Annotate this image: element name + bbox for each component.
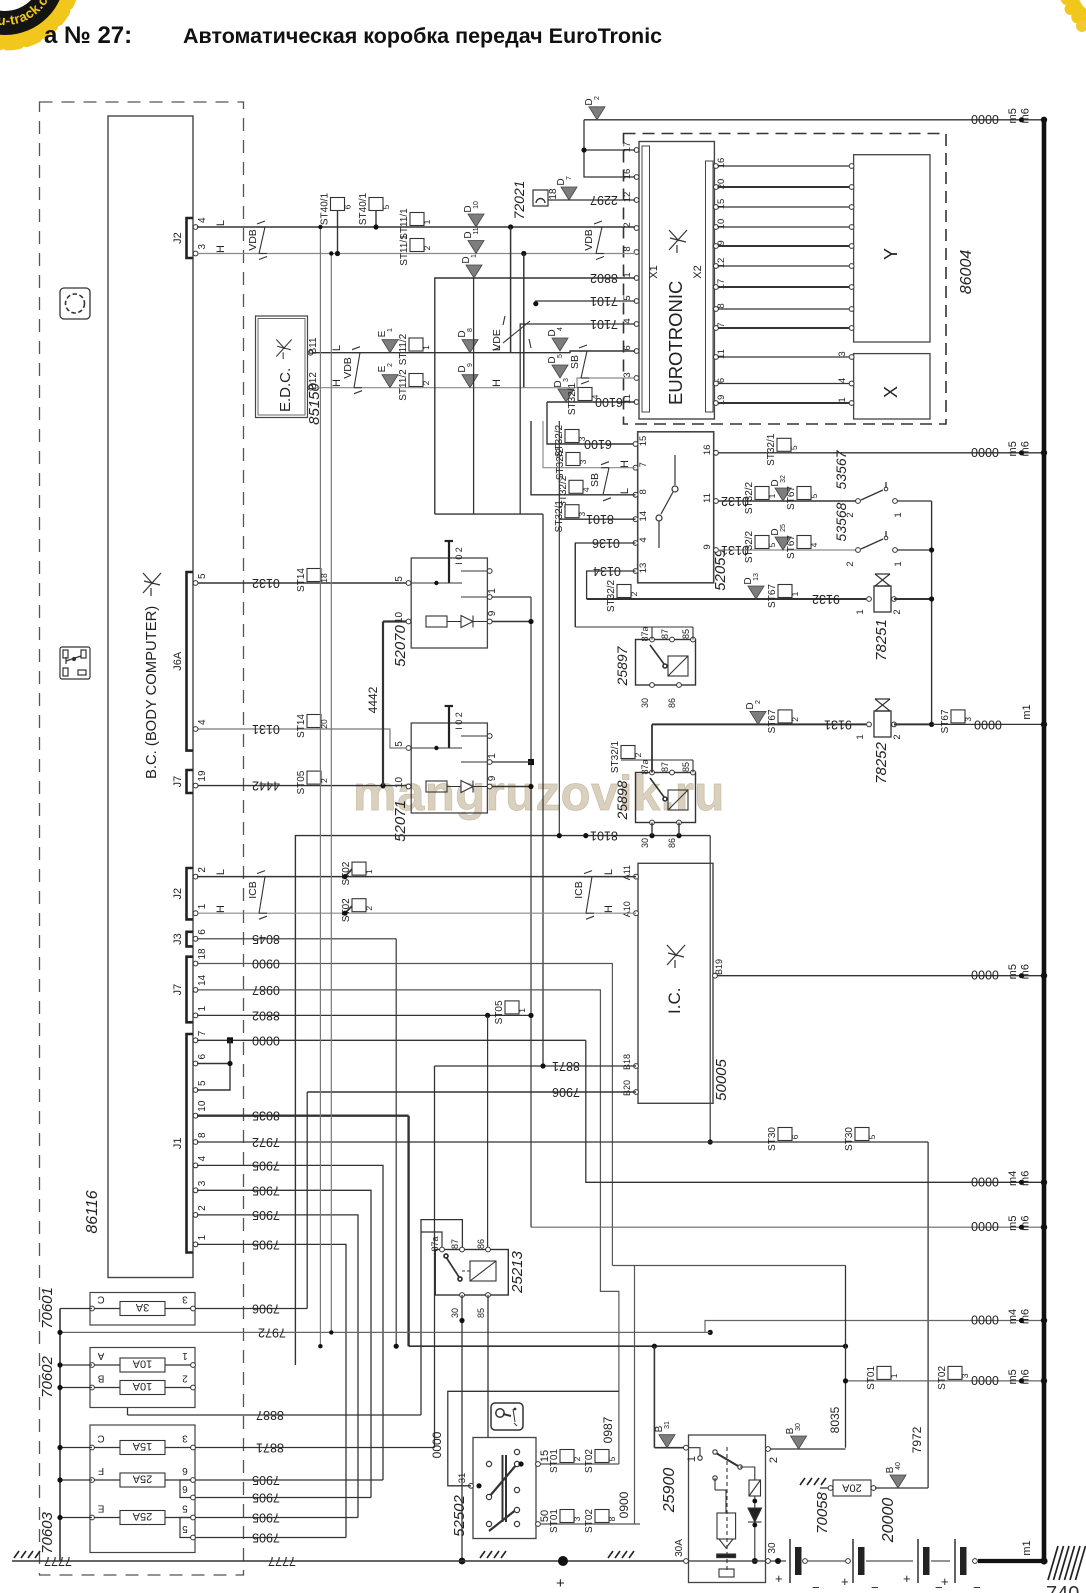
wire 9132 row <box>587 598 866 600</box>
wire 25898 pin30 stub <box>651 823 653 836</box>
svg-text:17: 17 <box>622 142 633 153</box>
diode/clip D7 <box>561 187 577 200</box>
wire 25213 pin85 down <box>487 1295 489 1438</box>
wire L row 52059 <box>531 421 636 495</box>
svg-text:78251: 78251 <box>873 619 890 661</box>
svg-text:ST01: ST01 <box>549 1509 560 1533</box>
52071 resistor <box>426 781 447 792</box>
svg-text:L: L <box>603 869 615 875</box>
svg-text:H: H <box>491 379 503 387</box>
svg-text:70601: 70601 <box>39 1287 56 1329</box>
wire 70602 inB <box>60 1387 92 1389</box>
svg-text:H: H <box>603 905 615 913</box>
wire X2-8 to Y <box>718 308 850 310</box>
junction bus tap 52059 bus dot <box>1041 450 1047 456</box>
junction bus tap top bus dot <box>1041 117 1047 123</box>
wire 7972 jog <box>705 1321 1042 1333</box>
svg-text:m4: m4 <box>1007 1171 1019 1186</box>
wire 52071 pin1 out <box>492 761 531 763</box>
connector J3 bracket <box>187 932 194 947</box>
twisted pair SB 52059 <box>601 462 611 501</box>
wire H row 52059 <box>543 421 636 468</box>
svg-text:5: 5 <box>622 295 633 300</box>
pin 52070 pin 10 <box>406 619 411 624</box>
svg-text:13: 13 <box>753 573 760 581</box>
svg-text:L: L <box>215 869 227 875</box>
pin 52070 pin 5 <box>406 581 411 586</box>
svg-text:8035: 8035 <box>828 1406 842 1433</box>
pin IC pin B19 <box>713 973 718 978</box>
svg-text:m5: m5 <box>1007 1216 1019 1231</box>
junction bus tap 52059 dot <box>1019 450 1024 455</box>
wire 8035 to pin2 <box>770 1448 846 1450</box>
pin 25900 pin 30A <box>684 1559 689 1564</box>
junction 8101 joint a <box>557 833 562 838</box>
pin 52502 pin 15 <box>536 1462 541 1467</box>
svg-text:+: + <box>903 1571 911 1586</box>
svg-text:3: 3 <box>197 1180 208 1186</box>
svg-text:ST32/2: ST32/2 <box>555 447 566 480</box>
pin 52059 pin 7 <box>633 465 638 470</box>
wire 8101 row upper <box>559 518 635 520</box>
logo gear ecu-track.com <box>0 0 74 44</box>
wire fuse 25A-1 link l <box>94 1479 120 1481</box>
pin fuse 25A-1 pin 6 <box>191 1478 196 1483</box>
wire 9131 left link <box>651 724 653 772</box>
box 52502 <box>473 1438 536 1539</box>
wire 25898 pin86 stub <box>678 823 680 836</box>
svg-text:9: 9 <box>487 610 498 616</box>
svg-text:0000: 0000 <box>971 445 999 459</box>
wire 30 to battery <box>770 1560 786 1562</box>
ground bus m6 <box>1042 120 1047 1561</box>
wire 52070 pin9 out <box>492 621 531 623</box>
svg-text:15A: 15A <box>132 1440 152 1452</box>
svg-text:−: − <box>973 1580 981 1593</box>
pin 25900 pin 1 <box>684 1445 689 1450</box>
svg-text:2: 2 <box>633 752 643 757</box>
wire pot riser to bus <box>531 1226 1042 1228</box>
svg-text:20A: 20A <box>842 1482 862 1494</box>
svg-text:10: 10 <box>716 219 727 230</box>
svg-text:14: 14 <box>197 974 208 986</box>
wire B11 L2 row <box>313 351 636 353</box>
junction 0000 bracket joint <box>227 1037 233 1043</box>
fuse 25A-1 <box>120 1473 165 1487</box>
svg-text:H: H <box>215 905 227 913</box>
svg-text:87a: 87a <box>640 626 650 641</box>
pin 52071 pin 9 <box>487 784 492 789</box>
svg-text:13: 13 <box>638 563 649 574</box>
wire 8871 riser <box>434 1066 436 1448</box>
connector ST02-1 <box>352 862 366 875</box>
svg-text:11: 11 <box>473 227 480 234</box>
wire braid h514 <box>435 513 543 515</box>
junction bus joint F <box>57 1477 62 1482</box>
pin fuse 25A-1 pin 6b <box>191 1495 196 1500</box>
svg-text:30A: 30A <box>674 1539 685 1557</box>
junction 52071 wiper joint <box>434 746 438 750</box>
svg-text:1: 1 <box>487 588 498 594</box>
pin EDC pin B12 <box>308 385 313 390</box>
pin J1 pin 2 <box>193 1213 198 1218</box>
svg-text:H: H <box>215 245 227 253</box>
box 25900 <box>689 1435 766 1583</box>
svg-text:78252: 78252 <box>873 741 890 783</box>
junction pair v2 top <box>329 251 333 255</box>
svg-text:1: 1 <box>487 753 498 759</box>
junction 8035 joint 845 <box>843 1344 848 1349</box>
svg-text:ST02: ST02 <box>937 1366 948 1390</box>
connector J6A bracket <box>187 572 194 751</box>
connector ST01-3 <box>560 1510 574 1523</box>
connector ST67-1 <box>778 585 792 598</box>
junction 52502 key dot <box>518 1461 523 1466</box>
junction VDB H drop joint <box>521 251 526 256</box>
fuse box 70602 <box>90 1348 195 1408</box>
svg-text:m1: m1 <box>1021 704 1033 719</box>
fuse 15A <box>120 1441 165 1455</box>
svg-text:2: 2 <box>755 700 762 704</box>
junction 78252 joint <box>929 722 934 727</box>
wire 0987 row <box>197 990 619 1464</box>
svg-text:ST11/2: ST11/2 <box>398 369 409 401</box>
pin 52059 pin 4 <box>633 541 638 546</box>
pin X pin 1 <box>849 401 854 406</box>
junction bus tap 0000-J1 bus dot <box>1041 1179 1047 1185</box>
svg-text:6: 6 <box>197 1054 208 1060</box>
svg-text:52070: 52070 <box>392 624 409 666</box>
wire 2297 row <box>548 199 635 201</box>
svg-text:а № 27:: а № 27: <box>44 22 132 49</box>
svg-text:1: 1 <box>855 609 866 614</box>
svg-text:5: 5 <box>789 445 799 450</box>
svg-text:0136: 0136 <box>592 536 620 550</box>
svg-text:ST32/2: ST32/2 <box>744 530 755 563</box>
svg-text:I 0 2: I 0 2 <box>454 712 464 730</box>
connector ST14-20 <box>307 715 321 728</box>
svg-text:X2: X2 <box>692 265 704 278</box>
wire 7972 low row <box>60 1331 705 1333</box>
svg-text:2: 2 <box>892 734 903 739</box>
svg-text:ST67: ST67 <box>767 584 778 608</box>
wire X2-17 to Y <box>718 286 850 288</box>
wire fuse 25A-2 bridge <box>180 1518 191 1538</box>
diode/clip D3 <box>558 389 574 402</box>
junction m1 ground joint <box>1040 1557 1047 1564</box>
svg-text:7905: 7905 <box>252 1491 280 1505</box>
svg-text:6: 6 <box>343 204 353 209</box>
diode/clip B31 <box>659 1435 675 1448</box>
svg-text:E.D.C.: E.D.C. <box>277 368 294 412</box>
svg-text:10: 10 <box>197 1100 208 1112</box>
svg-text:4: 4 <box>809 542 819 547</box>
svg-text:1: 1 <box>517 1008 527 1013</box>
svg-text:Y: Y <box>881 248 901 260</box>
junction 8101 joint b <box>583 833 588 838</box>
svg-text:m5: m5 <box>1007 1369 1019 1384</box>
connector ST30-6 <box>778 1128 792 1141</box>
25213 contacts <box>444 1254 496 1281</box>
52070 wiper line <box>411 582 462 584</box>
svg-text:30: 30 <box>640 698 650 708</box>
connector J2 lower bracket <box>187 868 194 919</box>
svg-text:4442: 4442 <box>252 779 280 793</box>
svg-text:7101: 7101 <box>590 294 618 308</box>
diode/clip D1 <box>466 265 482 278</box>
svg-text:0987: 0987 <box>601 1416 615 1443</box>
svg-text:740: 740 <box>1046 1583 1079 1593</box>
svg-text:1: 1 <box>837 397 848 402</box>
connector ST11/1-2 <box>410 239 424 252</box>
pin J1 pin 8 <box>193 1140 198 1145</box>
wire fuse 10A-1 link r <box>165 1364 191 1366</box>
52070 mid contact <box>461 596 487 598</box>
25897 feed bracket <box>575 627 693 640</box>
svg-text:1: 1 <box>855 734 866 739</box>
svg-text:ST30: ST30 <box>767 1127 778 1151</box>
logo gear fragment top right <box>1060 0 1086 37</box>
svg-text:4: 4 <box>638 537 649 542</box>
svg-text:86116: 86116 <box>84 1190 101 1233</box>
svg-text:m4: m4 <box>1007 1309 1019 1324</box>
svg-text:7905: 7905 <box>252 1531 280 1545</box>
svg-text:11: 11 <box>702 493 713 503</box>
svg-text:8: 8 <box>607 1516 617 1521</box>
wire 78252 out <box>894 723 932 725</box>
svg-text:50005: 50005 <box>713 1058 730 1100</box>
icon axle/chassis <box>60 647 90 679</box>
pin 52059 pin 8 <box>633 492 638 497</box>
svg-text:8035: 8035 <box>252 1109 280 1123</box>
svg-text:8: 8 <box>622 246 633 251</box>
wire X2-20 to Y <box>718 186 850 188</box>
wire ST40/1-6 stub <box>337 211 339 254</box>
junction bus joint C <box>57 1445 62 1450</box>
svg-text:5: 5 <box>182 1503 188 1514</box>
svg-text:85: 85 <box>681 762 691 772</box>
pin 53567 aux <box>884 487 888 491</box>
svg-text:B18: B18 <box>622 1054 632 1070</box>
wire 8045 to pin1 <box>654 1447 684 1449</box>
diode/clip D-2 <box>750 711 766 724</box>
svg-text:L: L <box>331 345 343 351</box>
junction bus tap 0000-J1 dot <box>1019 1180 1024 1185</box>
pin Y pin row 16 <box>849 164 854 169</box>
battery cell G2 <box>853 1539 865 1583</box>
svg-text:m1: m1 <box>1021 1540 1033 1555</box>
Y box <box>854 155 930 342</box>
svg-text:7906: 7906 <box>252 1302 280 1316</box>
connector ST67-2 <box>778 710 792 723</box>
wire X2-15 to Y <box>718 206 850 208</box>
svg-text:2: 2 <box>629 591 639 596</box>
svg-text:2: 2 <box>364 906 374 911</box>
svg-text:70058: 70058 <box>814 1491 831 1533</box>
pin Y pin row 12 <box>849 264 854 269</box>
wire fuse supply bus <box>59 1309 61 1562</box>
diode/clip D9 <box>462 375 478 388</box>
wire 8802 tap down <box>487 1015 489 1249</box>
wire 9131 row <box>652 723 866 725</box>
junction pot joint b <box>528 759 534 765</box>
52070 top contact <box>461 570 487 572</box>
wire 8035 run <box>409 1345 846 1347</box>
wire VDB L row <box>197 226 635 228</box>
connector ST30-5 <box>855 1128 869 1141</box>
svg-text:ST32/1: ST32/1 <box>766 433 777 466</box>
svg-text:2: 2 <box>387 363 394 367</box>
pin 78252 pin 2 <box>892 722 897 727</box>
junction 78251 joint <box>929 596 934 601</box>
EUROTRONIC X1 bar <box>642 146 650 412</box>
svg-text:ST32/1: ST32/1 <box>554 500 565 533</box>
junction 25900 dot c <box>752 1558 758 1564</box>
pin J1 pin 3 <box>193 1188 198 1193</box>
wire m1 row <box>932 723 1042 725</box>
junction pot joint c <box>528 784 533 789</box>
connector J7 bracket <box>187 957 194 1023</box>
twisted pair VDB near X1 <box>594 221 604 260</box>
pin 52070 pin 9 <box>487 619 492 624</box>
switch 53567 blade <box>861 482 886 500</box>
pin X1 pin 8 <box>634 250 639 255</box>
svg-text:7905: 7905 <box>252 1473 280 1487</box>
pin 53568 aux <box>884 536 888 540</box>
wire X2-16 to Y <box>718 165 850 167</box>
svg-text:ST32/2: ST32/2 <box>606 579 617 612</box>
ground hatch 7777 h2 <box>480 1551 506 1558</box>
svg-text:2: 2 <box>768 1457 780 1463</box>
junction bus joint E <box>57 1515 62 1520</box>
wire J1 pin6/5 bracket <box>197 1040 230 1090</box>
svg-text:Автоматическая коробка передач: Автоматическая коробка передач EuroTroni… <box>183 24 662 48</box>
junction pair v1 top <box>318 225 322 229</box>
pin EDC pin B11 <box>308 350 313 355</box>
wire 8035 low v <box>845 1266 847 1448</box>
pin J7 pin 1 <box>193 1013 198 1018</box>
svg-text:0000: 0000 <box>974 717 1002 731</box>
svg-text:6: 6 <box>182 1483 188 1494</box>
junction 25900 dot a <box>752 1499 757 1504</box>
svg-text:7905: 7905 <box>252 1183 280 1197</box>
pin X2 pin 15 <box>714 205 719 210</box>
wire ICB H row <box>197 912 636 914</box>
svg-text:−: − <box>812 1580 820 1593</box>
wire 0136 row <box>575 543 635 627</box>
pin fuse 15A pin 3 <box>191 1445 196 1450</box>
svg-text:5: 5 <box>767 542 777 547</box>
wire 70601 in <box>60 1308 92 1310</box>
wire fuse 25A-2 link r <box>165 1517 191 1519</box>
junction 52070 wiper joint <box>434 581 438 585</box>
wire fuse 10A-1 link l <box>94 1364 120 1366</box>
pin 53567 contact 1 <box>893 499 898 504</box>
svg-text:L: L <box>215 220 227 226</box>
junction bus tap st dot <box>1019 1378 1024 1383</box>
svg-text:1: 1 <box>790 591 800 596</box>
pin X1 pin 5 <box>634 299 639 304</box>
svg-text:8: 8 <box>638 489 649 494</box>
wire 7972 link tail <box>705 1331 710 1333</box>
svg-text:B19: B19 <box>714 959 724 975</box>
svg-text:X: X <box>881 386 901 398</box>
wire 70058 lead <box>820 1487 830 1489</box>
52070 antenna <box>445 541 453 583</box>
pin fuse 3A pin 3 <box>191 1306 196 1311</box>
svg-text:7972: 7972 <box>258 1325 286 1339</box>
svg-text:ST02: ST02 <box>341 861 352 885</box>
wire pair v2 <box>330 254 332 1333</box>
svg-text:J6A: J6A <box>172 651 184 671</box>
wire fuse 3A link l <box>94 1308 120 1310</box>
pin X2 pin 17 <box>714 285 719 290</box>
svg-text:87: 87 <box>660 629 670 639</box>
junction m1 bus dot <box>1041 721 1047 727</box>
svg-text:8802: 8802 <box>252 1008 280 1022</box>
svg-text:ST05: ST05 <box>494 1000 505 1024</box>
wire 52070 pin10 feed <box>383 620 406 622</box>
ECU symbol EUROTRONIC K symbol <box>669 230 687 253</box>
svg-text:4: 4 <box>837 378 848 383</box>
wire 7101 row a <box>536 301 635 304</box>
svg-text:2: 2 <box>845 561 856 566</box>
wire 0134 drop to 9132 <box>586 598 588 600</box>
pin 53567 contact 2 <box>856 499 861 504</box>
svg-text:8871: 8871 <box>256 1441 284 1455</box>
pin X1 pin 17 <box>634 148 639 153</box>
svg-text:8871: 8871 <box>552 1059 580 1073</box>
pin X1 pin 4 <box>634 322 639 327</box>
pin Y pin row 20 <box>849 185 854 190</box>
svg-text:ST14: ST14 <box>296 568 307 592</box>
box 52070 <box>411 558 487 648</box>
svg-text:0000: 0000 <box>971 1373 999 1387</box>
box 52059 <box>638 432 714 583</box>
wire 52070 pin1 out <box>492 596 531 598</box>
pin X2 pin 7 <box>714 326 719 331</box>
wire B12 H2 row <box>313 378 636 388</box>
wire 8887 87a arm <box>421 1232 442 1250</box>
pin 52059 pin 9 <box>714 548 719 553</box>
52071 mid contact <box>461 761 487 763</box>
wire 7906 top row <box>307 1091 636 1093</box>
25897 contacts <box>650 645 688 676</box>
twisted pair ICB J2 <box>257 871 267 920</box>
wire VDB H drop <box>523 254 525 388</box>
svg-text:4: 4 <box>197 719 208 725</box>
svg-text:7972: 7972 <box>252 1135 280 1149</box>
52071 antenna <box>445 706 453 748</box>
junction ST02-2 joint <box>342 911 347 916</box>
svg-text:ST67: ST67 <box>767 709 778 733</box>
svg-text:3: 3 <box>197 244 208 250</box>
svg-text:6: 6 <box>790 1134 800 1139</box>
wire 52071 pin9 out <box>492 786 531 788</box>
wire X2-11 to X <box>718 356 850 358</box>
wire VDB L drop <box>510 227 512 353</box>
connector ST40/1-5 <box>369 198 383 211</box>
svg-text:X1: X1 <box>648 265 660 278</box>
svg-text:0132: 0132 <box>252 576 280 590</box>
wire pair v1 <box>319 227 321 1346</box>
wire 8802 drop column <box>473 278 475 514</box>
svg-text:16: 16 <box>716 158 727 169</box>
svg-text:9: 9 <box>487 775 498 781</box>
pin X1 pin 16 <box>634 175 639 180</box>
wire 8887 stub <box>127 1408 129 1416</box>
svg-text:1: 1 <box>364 869 374 874</box>
